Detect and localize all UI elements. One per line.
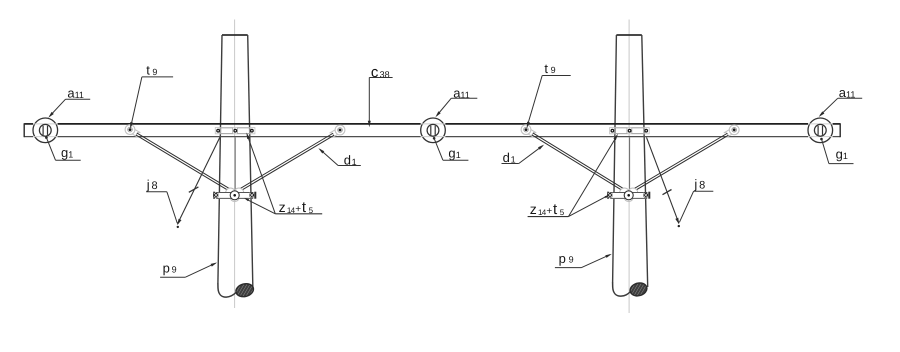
- svg-text:9: 9: [152, 67, 157, 77]
- pole P9 left bottom break curve: [218, 284, 236, 298]
- svg-text:9: 9: [569, 255, 574, 265]
- pivot d1-top left pole: [330, 125, 345, 138]
- label p9 left: [160, 260, 217, 277]
- connector a11 middle (ring fitting): [421, 118, 446, 143]
- brace d1 left pole right arm: [238, 133, 335, 192]
- label a11 left: [48, 86, 90, 118]
- label g1 middle: [433, 137, 469, 160]
- label p9 right: [555, 251, 612, 268]
- label z14+t5 right: [528, 134, 618, 218]
- svg-text:j: j: [693, 176, 697, 191]
- svg-text:g: g: [61, 145, 68, 160]
- label g1 right: [820, 138, 853, 164]
- svg-text:g: g: [448, 145, 455, 160]
- pivot t9 left (beam hinge): [125, 125, 140, 137]
- label a11 right: [819, 85, 863, 117]
- pole P9 right centerline: [628, 20, 630, 314]
- beam bolt plate group left pole (z14): [215, 128, 255, 134]
- label a11 middle: [435, 86, 477, 118]
- svg-text:1: 1: [68, 150, 73, 160]
- right pole seam line: [629, 137, 631, 190]
- svg-text:p: p: [559, 251, 566, 266]
- label z14+t5 left: [244, 133, 322, 216]
- svg-text:j: j: [146, 177, 150, 192]
- beam right end cap: [839, 123, 841, 137]
- svg-text:1: 1: [456, 150, 461, 160]
- label c38: [368, 64, 393, 127]
- tick mark on j8 left: [189, 187, 199, 192]
- label t9 left: [130, 63, 173, 129]
- svg-text:8: 8: [152, 180, 158, 192]
- svg-text:t: t: [544, 61, 548, 76]
- connector a11 right (ring fitting): [808, 118, 833, 143]
- connector a11 left (ring fitting): [33, 118, 58, 143]
- beam C38 (horizontal crossarm tube): [24, 124, 840, 137]
- pole P9 right section ellipse (hatched): [629, 281, 649, 297]
- svg-text:5: 5: [560, 208, 565, 217]
- svg-text:g: g: [836, 147, 843, 162]
- beam bolt plate group right pole (z14): [610, 128, 650, 134]
- svg-text:8: 8: [699, 180, 705, 192]
- svg-text:1: 1: [511, 154, 516, 164]
- label t9 right: [527, 61, 571, 128]
- svg-text:z: z: [530, 201, 537, 217]
- tie rod j8 left: [177, 137, 220, 228]
- pole P9 right bottom break curve: [613, 283, 631, 297]
- label d1 left: [318, 148, 360, 168]
- tick mark on j8 right: [663, 190, 672, 195]
- pivot d1-top right pole: [724, 125, 739, 137]
- svg-text:d: d: [503, 150, 510, 165]
- pole P9 left (tapered tube): [218, 35, 253, 288]
- beam left end cap: [23, 123, 25, 137]
- brace d1 right pole left arm: [532, 133, 626, 192]
- svg-text:c: c: [371, 64, 379, 81]
- tie rod j8 right: [647, 137, 681, 227]
- svg-text:p: p: [163, 260, 170, 275]
- bracket z14+t5 left pole: [213, 188, 256, 202]
- brace d1 left pole left arm: [136, 133, 232, 192]
- svg-text:+: +: [546, 206, 552, 217]
- pole P9 right (tapered tube): [613, 35, 648, 287]
- svg-text:t: t: [146, 63, 150, 78]
- pole P9 left section ellipse (hatched): [235, 282, 255, 299]
- bracket z14+t5 right pole: [607, 188, 650, 202]
- left pole seam line: [234, 137, 236, 190]
- label j8 right: [679, 176, 713, 222]
- label g1 left: [45, 136, 81, 160]
- svg-text:9: 9: [172, 265, 177, 275]
- pole P9 left centerline: [234, 20, 236, 309]
- label j8 left: [146, 177, 177, 223]
- svg-text:9: 9: [551, 65, 556, 75]
- svg-text:z: z: [279, 199, 286, 215]
- pivot t9 right (beam hinge): [521, 125, 536, 138]
- label d1 right: [502, 145, 545, 165]
- svg-text:1: 1: [843, 151, 848, 161]
- brace d1 right pole right arm: [632, 133, 729, 192]
